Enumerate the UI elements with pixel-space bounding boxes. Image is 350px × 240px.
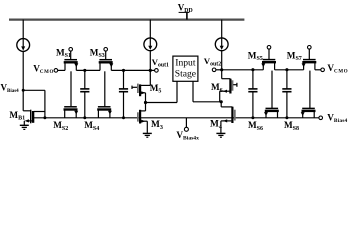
wire MS5 to MS7 with junction bbox=[275, 69, 304, 71]
transistor switch MS6 with gate feed wire and label bbox=[271, 71, 273, 109]
M6 drain connection from Vout2 node bbox=[221, 70, 223, 79]
current source I2 (center-left) with feed wires bbox=[149, 20, 151, 38]
capacitor C3 between Vout2-side node and bias line bbox=[252, 70, 254, 89]
M3 drain lead bbox=[140, 110, 145, 112]
M4 drain connection bbox=[220, 102, 222, 107]
M5 drain lead to Vout1 bbox=[141, 84, 150, 86]
transistor switch MS3 with gate terminal and label bbox=[104, 48, 108, 52]
transistor switch MS8 with gate feed wire and label bbox=[309, 71, 311, 109]
wire MS3 to Vout1 node with junction bbox=[111, 69, 150, 71]
ground symbol under MB1 bbox=[20, 124, 29, 126]
VBias4 right terminal and label bbox=[319, 116, 323, 120]
transistor M3 body bbox=[137, 112, 139, 121]
transistor switch MS7 with gate terminal and label bbox=[308, 46, 312, 50]
svg-text:Stage: Stage bbox=[175, 69, 196, 80]
input stage right output leg bbox=[192, 81, 194, 102]
input stage block bbox=[173, 56, 198, 81]
transistor switch MS1 with gate terminal and label bbox=[69, 48, 73, 52]
transistor M6 body bbox=[229, 79, 231, 94]
M5 gate stub with tick bbox=[131, 86, 133, 89]
node M5-M3 junction bbox=[144, 101, 147, 104]
capacitor C4 between switch node and bias line bbox=[286, 70, 288, 89]
M4 source arrow to ground bbox=[223, 119, 227, 122]
transistor M5 body bbox=[137, 84, 139, 93]
wire VBias4 node to MB1 gate bbox=[22, 90, 24, 111]
current source I1 (left) with feed wires bbox=[22, 20, 24, 39]
node M6-M4 junction bbox=[220, 100, 223, 103]
wire MS7 to VCMO right bbox=[315, 69, 321, 71]
node VBias4 left junction bbox=[22, 89, 25, 92]
M6 source arrow and lead bbox=[223, 90, 227, 93]
transistor MB1 body bbox=[30, 110, 32, 124]
VDD power rail wire bbox=[9, 19, 244, 21]
wire MS1 to MS3 with junction bbox=[76, 69, 100, 71]
VCMO right terminal and label bbox=[321, 68, 325, 72]
transistor switch MS5 with gate terminal and label bbox=[267, 46, 271, 50]
input stage left output leg bbox=[176, 81, 178, 102]
current source I3 (center-right) with feed wires bbox=[221, 20, 223, 38]
ground symbol under M3 bbox=[143, 132, 152, 134]
M6 gate stub with tick bbox=[233, 84, 237, 86]
Vout1 terminal stub and label bbox=[150, 69, 154, 71]
M5 source arrow and lead bbox=[141, 91, 145, 94]
svg-text:Input: Input bbox=[175, 58, 196, 69]
junction M B1 drain tap bbox=[43, 116, 46, 119]
VBias4x terminal tick circle and label bbox=[185, 118, 187, 127]
transistor switch MS4 with gate feed wire and label bbox=[104, 71, 106, 107]
MB1 source arrow to ground bbox=[25, 119, 29, 122]
transistor M4 body bbox=[231, 107, 233, 123]
ground symbol under M4 bbox=[216, 132, 225, 134]
wire junction to input stage left leg bbox=[146, 102, 178, 104]
capacitor C2 between Vout1-side node and bias line bbox=[123, 70, 125, 89]
bias distribution wire (bottom) bbox=[34, 117, 319, 119]
MB1 drain lead and diode connection bbox=[34, 111, 45, 113]
capacitor C1 between switch node and bias line bbox=[84, 70, 86, 89]
wire Vout2 node to MS5 bbox=[222, 69, 264, 71]
wire VCMO to MS1 bbox=[58, 69, 65, 71]
M3 source arrow to ground bbox=[141, 120, 145, 123]
transistor switch MS2 with gate feed wire and label bbox=[70, 71, 72, 107]
